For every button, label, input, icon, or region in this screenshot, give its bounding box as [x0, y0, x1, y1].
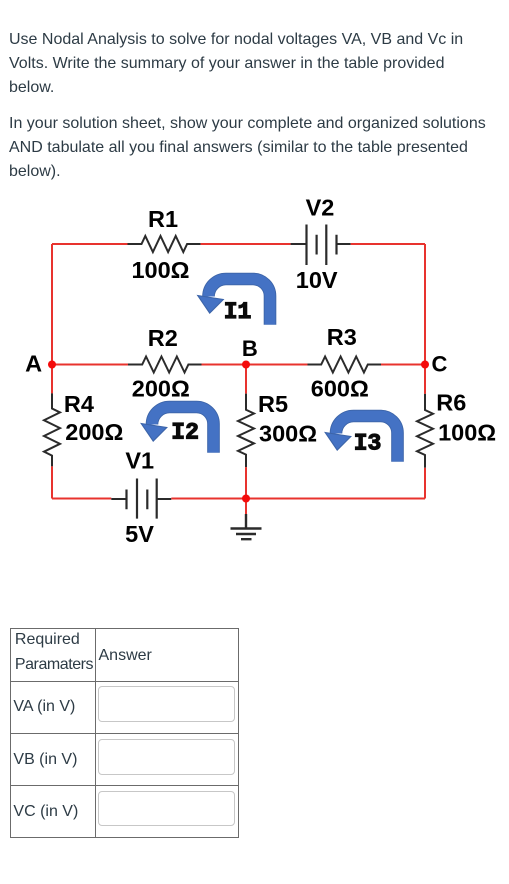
svg-text:I1: I1: [224, 299, 252, 325]
svg-text:R6: R6: [436, 390, 466, 416]
svg-text:R4: R4: [64, 391, 94, 417]
wire: R4 down to bottom rail: [51, 466, 53, 498]
node C junction dot: [421, 361, 429, 369]
svg-text:200Ω: 200Ω: [132, 375, 190, 401]
svg-text:R5: R5: [258, 391, 288, 417]
svg-text:I2: I2: [171, 420, 199, 446]
ground: [231, 514, 262, 539]
wire: top rail middle segment (R1 to V2): [201, 243, 291, 245]
svg-text:V2: V2: [306, 195, 335, 221]
svg-text:B: B: [242, 336, 258, 361]
wire: R3 to node C: [381, 364, 425, 366]
svg-text:R1: R1: [148, 206, 178, 232]
mesh current arrow I2: [141, 407, 213, 453]
svg-text:300Ω: 300Ω: [259, 421, 317, 447]
wire: bottom rail left segment: [52, 498, 111, 500]
wire: R6 down to bottom rail: [424, 468, 426, 499]
resistor R4: [44, 393, 60, 466]
wire: top rail left segment: [52, 243, 128, 245]
svg-text:100Ω: 100Ω: [131, 257, 189, 283]
wire: bottom rail right segment (V1 to right corner): [171, 498, 425, 500]
wire: node C down to R6: [424, 365, 426, 394]
battery V1 leads: [111, 498, 171, 500]
mesh current arrow I1: [198, 279, 270, 325]
svg-text:10V: 10V: [296, 267, 338, 293]
resistor R5: [238, 394, 254, 468]
wire: node B down to R5: [245, 365, 247, 394]
svg-text:600Ω: 600Ω: [311, 376, 369, 402]
resistor R2: [128, 357, 202, 373]
svg-text:C: C: [432, 351, 448, 376]
resistor R6: [417, 394, 433, 468]
svg-text:A: A: [25, 351, 42, 377]
wire: node B to R3: [246, 364, 308, 366]
resistor R3: [308, 357, 382, 373]
battery V2 leads: [291, 243, 351, 245]
bottom ground node junction dot: [242, 495, 250, 503]
wire: node A down to R4: [51, 365, 53, 394]
svg-text:R2: R2: [148, 325, 178, 351]
mesh current arrow I3: [325, 416, 397, 462]
wire: right vertical (top rail to node C): [424, 244, 426, 365]
wire: R2 to node B: [202, 364, 247, 366]
svg-text:R3: R3: [327, 324, 357, 350]
node A junction dot: [48, 361, 56, 369]
svg-text:100Ω: 100Ω: [438, 420, 496, 446]
svg-text:V1: V1: [125, 448, 154, 474]
battery V1 plates: [127, 479, 157, 519]
battery V2 plates: [307, 225, 337, 266]
resistor R1: [128, 236, 201, 252]
wire: ground stub: [245, 499, 247, 515]
wire: node A to R2: [52, 364, 128, 366]
wire: R5 down to bottom node: [245, 467, 247, 498]
node B junction dot: [242, 361, 250, 369]
svg-text:5V: 5V: [125, 521, 154, 547]
wire: left vertical (top rail to node A): [51, 244, 53, 365]
svg-text:200Ω: 200Ω: [65, 419, 123, 445]
wire: top rail right segment (V2 to corner): [351, 243, 425, 245]
svg-text:I3: I3: [354, 430, 382, 456]
